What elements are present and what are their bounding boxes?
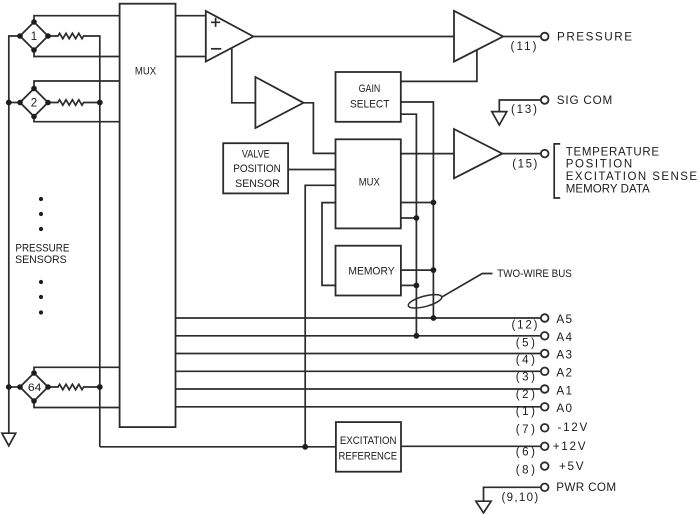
svg-text:(4): (4) (516, 354, 535, 366)
svg-text:POSITION: POSITION (233, 163, 281, 175)
svg-text:+5V: +5V (559, 460, 584, 473)
svg-text:POSITION: POSITION (566, 159, 633, 171)
svg-text:TWO-WIRE BUS: TWO-WIRE BUS (497, 268, 572, 280)
svg-text:SENSORS: SENSORS (15, 254, 67, 266)
svg-text:(6): (6) (516, 447, 535, 459)
svg-text:2: 2 (31, 98, 37, 110)
svg-text:GAIN: GAIN (359, 83, 381, 95)
svg-text:A2: A2 (556, 367, 572, 380)
svg-text:(2): (2) (516, 389, 535, 401)
svg-text:PRESSURE: PRESSURE (15, 243, 69, 255)
svg-text:REFERENCE: REFERENCE (339, 451, 398, 463)
svg-text:PRESSURE: PRESSURE (557, 31, 632, 44)
svg-text:A3: A3 (556, 349, 572, 362)
svg-text:EXCITATION SENSE: EXCITATION SENSE (566, 171, 698, 183)
svg-text:(1): (1) (516, 406, 535, 418)
svg-text:SENSOR: SENSOR (235, 178, 280, 190)
svg-text:PWR COM: PWR COM (556, 481, 616, 494)
svg-text:SELECT: SELECT (350, 99, 390, 111)
svg-text:A1: A1 (556, 384, 572, 397)
svg-text:(7): (7) (516, 424, 535, 436)
svg-text:1: 1 (31, 31, 37, 43)
svg-text:TEMPERATURE: TEMPERATURE (566, 146, 660, 158)
svg-text:(5): (5) (516, 337, 535, 349)
svg-text:MUX: MUX (359, 177, 380, 189)
svg-text:(8): (8) (516, 464, 535, 476)
svg-text:(9,10): (9,10) (502, 492, 539, 504)
svg-text:64: 64 (28, 382, 42, 394)
svg-text:SIG COM: SIG COM (557, 94, 613, 107)
svg-text:(15): (15) (512, 159, 537, 171)
svg-text:MEMORY DATA: MEMORY DATA (566, 183, 650, 195)
svg-text:(3): (3) (516, 372, 535, 384)
svg-text:MEMORY: MEMORY (348, 265, 394, 277)
svg-text:EXCITATION: EXCITATION (340, 435, 397, 447)
svg-text:MUX: MUX (135, 65, 156, 77)
svg-text:+12V: +12V (553, 440, 586, 453)
svg-text:VALVE: VALVE (242, 148, 270, 160)
